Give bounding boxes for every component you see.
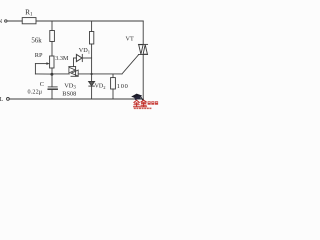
diode VD1 [74, 47, 92, 61]
svg-text:100: 100 [117, 83, 129, 90]
node B [91, 73, 93, 75]
svg-text:L: L [0, 97, 4, 103]
wire [91, 44, 93, 74]
svg-text:BS08: BS08 [62, 91, 76, 98]
watermark logo [131, 94, 158, 110]
terminal L [0, 97, 9, 103]
wire [36, 20, 143, 22]
diode VD2 [89, 74, 106, 99]
capacitor C [28, 81, 58, 95]
wire [9, 98, 143, 100]
triac VT [122, 36, 148, 99]
diac VD3 BS08 [62, 67, 78, 98]
wire [142, 21, 144, 44]
terminal N [0, 19, 7, 25]
resistor R1 [22, 7, 36, 23]
svg-text:VD2: VD2 [95, 84, 106, 90]
wire [91, 21, 93, 32]
svg-text:C: C [40, 81, 44, 88]
node A [50, 73, 53, 76]
svg-text:3.3M: 3.3M [55, 55, 69, 62]
wire [51, 42, 53, 57]
wire [73, 58, 75, 67]
resistor 100 [111, 74, 129, 99]
resistor 56k [31, 31, 54, 45]
wire [78, 73, 122, 75]
potentiometer RP [35, 52, 69, 74]
svg-text:56k: 56k [31, 37, 42, 44]
svg-text:RP: RP [35, 52, 43, 59]
wire [51, 68, 53, 74]
wire [51, 90, 53, 99]
wire [51, 74, 53, 87]
svg-text:VT: VT [126, 36, 134, 43]
resistor R2 [90, 32, 94, 45]
svg-text:0.22μ: 0.22μ [28, 89, 43, 95]
wire [53, 73, 69, 75]
wire [7, 20, 22, 22]
wire [51, 21, 53, 31]
